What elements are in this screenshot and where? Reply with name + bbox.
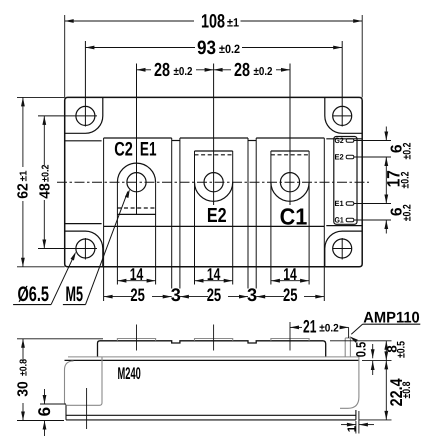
arrow 22.4 top — [384, 360, 388, 369]
arrow 22.4 bottom — [384, 411, 388, 420]
svg-text:±0.2: ±0.2 — [254, 66, 273, 78]
arrow 48 top — [42, 116, 46, 125]
dim line 0.5 lower — [372, 361, 374, 375]
svg-text:±1: ±1 — [227, 15, 239, 29]
arrow 6 lower — [43, 421, 47, 430]
dim line 30 top part — [22, 339, 24, 362]
arrow 21 right — [340, 326, 349, 330]
arrow 0.5 lower — [371, 361, 375, 370]
black seam line — [65, 359, 359, 361]
dim line 6 upper — [44, 389, 46, 404]
arrow 30 top — [21, 339, 25, 348]
extension line pin E2 — [354, 156, 391, 158]
dim line 6 lower — [44, 421, 46, 437]
side view centreline t2 — [213, 325, 215, 351]
case right foot — [340, 357, 359, 408]
chain dim line 25c-r — [304, 296, 324, 298]
arrow 8 bottom — [384, 351, 388, 360]
dim line 1 left — [341, 424, 356, 426]
side view centreline t3 — [289, 322, 291, 351]
terminal E2 centreline — [213, 64, 215, 206]
mounting pad bottom-right — [325, 231, 362, 267]
terminal C1 right side + ext — [308, 151, 310, 285]
svg-text:E2: E2 — [335, 153, 344, 162]
extension line seam right — [362, 359, 392, 361]
mounting hole top-right — [333, 106, 352, 125]
side view hole centreline — [86, 388, 88, 429]
arrow 62 top — [21, 97, 25, 106]
dim line 1 right — [359, 424, 374, 426]
terminal E2 fold dashed line — [195, 154, 233, 156]
svg-text:±0.5: ±0.5 — [396, 341, 408, 358]
terminal C1 screw hole — [280, 173, 299, 192]
svg-text:E1: E1 — [140, 138, 157, 160]
AMP110 connector pin — [345, 338, 350, 357]
extension line case edge — [358, 411, 360, 434]
arrow 93 right — [333, 46, 342, 50]
chain dim line 25b-l — [180, 296, 208, 298]
terminal C2/E1 left side + ext — [116, 182, 118, 284]
arrow 6 upper — [43, 395, 47, 404]
dim line 62 top part — [22, 97, 24, 167]
arrow 6a top — [384, 132, 388, 141]
svg-text:±0.2: ±0.2 — [402, 204, 414, 221]
dim line 14 — [117, 280, 155, 282]
dim line 93 right part — [242, 47, 342, 49]
svg-text:25: 25 — [130, 285, 145, 305]
arrow 17 top — [384, 157, 388, 166]
baseplate bottom line — [66, 419, 356, 421]
arrow 108 right — [353, 19, 362, 23]
arrow 28a left — [137, 68, 146, 72]
raised-area step line right-bottom — [326, 225, 362, 227]
arrow 1 left — [347, 423, 356, 427]
terminal C1 arch — [271, 182, 309, 201]
terminal C2/E1 right side + ext — [155, 182, 157, 284]
slot wall 3 — [179, 138, 181, 289]
svg-text:28: 28 — [234, 60, 250, 81]
extension line side bottom — [17, 420, 64, 422]
svg-text:M240: M240 — [118, 364, 141, 383]
dim line 28b left — [214, 69, 231, 71]
svg-text:±0.2: ±0.2 — [400, 172, 412, 189]
extension line baseplate bottom — [359, 419, 392, 421]
slot wall 2 — [171, 138, 173, 289]
arrow 0.5 upper — [371, 349, 375, 358]
slot bottom edge — [104, 225, 325, 227]
svg-text:G1: G1 — [335, 216, 345, 225]
chain dim line 25c-l — [256, 296, 284, 298]
svg-text:C2: C2 — [114, 138, 133, 160]
svg-text:0.5: 0.5 — [354, 341, 369, 357]
terminal E2 arch — [195, 182, 233, 201]
arrow 21 left — [290, 326, 299, 330]
terminal C1 left side + ext — [270, 151, 272, 285]
extension line top edge — [17, 96, 65, 98]
mounting hole top-left — [76, 106, 95, 125]
leader arrow AMP110 — [349, 336, 358, 343]
mounting pad bottom-left — [65, 231, 103, 267]
terminal C2/E1 plate bottom — [117, 213, 155, 215]
arrow 30 bottom — [21, 412, 25, 421]
svg-text:93: 93 — [197, 38, 216, 59]
slot wall 4 — [247, 138, 249, 289]
svg-text:±0.2: ±0.2 — [219, 42, 240, 56]
leader line M5 — [86, 192, 128, 305]
extension line foot bottom — [40, 403, 66, 405]
baseplate left edge — [65, 405, 67, 420]
groove notch top 2 — [248, 140, 256, 142]
extension line baseplate edge — [355, 421, 357, 434]
underline AMP110 — [363, 323, 421, 325]
arrow 28b left — [214, 68, 223, 72]
lid terminal bump — [271, 339, 309, 341]
svg-text:28: 28 — [154, 60, 170, 81]
dim line 28b right — [276, 69, 290, 71]
arrow 28b right — [281, 68, 290, 72]
svg-text:±0.2: ±0.2 — [402, 143, 414, 160]
dim line 6b arrow body — [385, 220, 387, 234]
svg-text:25: 25 — [283, 285, 298, 305]
lid terminal bump — [117, 339, 155, 341]
arrow 93 left — [85, 46, 94, 50]
svg-text:G2: G2 — [335, 136, 344, 145]
horizontal centreline — [57, 181, 369, 183]
underline dia6.5 — [13, 304, 51, 306]
arrow 1 right — [359, 423, 368, 427]
dim line 6a arrow body — [385, 127, 387, 141]
leader arrow M5 — [125, 189, 130, 198]
dim line 14 — [195, 280, 233, 282]
svg-text:14: 14 — [283, 265, 297, 284]
leader line AMP110 — [351, 324, 362, 334]
terminal E2 plate top — [195, 150, 233, 152]
svg-text:1: 1 — [346, 425, 359, 432]
slot top edge 2 — [180, 137, 248, 139]
svg-text:3: 3 — [247, 285, 257, 305]
control terminal block — [334, 137, 357, 225]
leader line dia6.5 — [51, 256, 74, 305]
dim line 93 left part — [85, 47, 195, 49]
dim line 48 top part — [43, 116, 45, 165]
svg-text:±0.8: ±0.8 — [401, 382, 413, 399]
arrow 62 bottom — [21, 258, 25, 267]
svg-text:Ø6.5: Ø6.5 — [18, 283, 50, 306]
terminal E2 left side + ext — [194, 151, 196, 285]
extension line side top — [17, 338, 103, 340]
terminal E2 right side + ext — [232, 151, 234, 285]
svg-text:±0.2: ±0.2 — [319, 322, 339, 334]
dim line 14 — [271, 280, 309, 282]
side view centreline t1 — [136, 325, 138, 351]
slot top edge 1 — [104, 137, 172, 139]
svg-text:14: 14 — [207, 265, 221, 284]
dim line 28a left — [137, 69, 152, 71]
control pin E1 — [346, 202, 354, 205]
case left foot — [65, 357, 103, 405]
dim line 108 left part — [65, 20, 194, 22]
slot top edge 3 — [256, 137, 324, 139]
svg-text:108: 108 — [201, 12, 225, 33]
terminal C1 fold dashed line — [271, 154, 309, 156]
mounting hole bottom-left — [76, 239, 95, 258]
dim line 8 — [385, 341, 387, 361]
leader arrow dia6.5 — [71, 252, 77, 261]
underline M5 — [63, 304, 86, 306]
svg-text:3: 3 — [171, 285, 181, 305]
dim line 21 right — [341, 326, 349, 328]
dim line 21 left — [290, 326, 302, 328]
dim line 62 bottom part — [22, 201, 24, 267]
arrow 28a right — [205, 68, 214, 72]
arrow 48 bottom — [42, 240, 46, 249]
dim line 22.4 — [385, 360, 387, 420]
dim line 28a right — [196, 69, 214, 71]
mounting pad top-right — [325, 97, 362, 133]
extension line pin G1 — [354, 219, 391, 221]
arrow 17 bottom — [384, 195, 388, 204]
svg-text:±0.8: ±0.8 — [19, 359, 30, 376]
chain dim line 25a-l — [104, 296, 132, 298]
baseplate top line — [66, 414, 356, 416]
svg-text:21: 21 — [303, 316, 316, 336]
side view lid outline — [98, 341, 326, 357]
extension line lid top — [330, 340, 392, 342]
raised-area step line left-bottom — [65, 223, 102, 225]
raised-area step line right-top — [326, 138, 362, 140]
gray seam line — [68, 356, 359, 358]
dim line 0.5 upper — [372, 344, 374, 358]
svg-text:62: 62 — [15, 183, 31, 199]
extension line left edge — [64, 15, 66, 97]
dim line 30 bottom part — [22, 403, 24, 421]
slot wall 1 — [103, 138, 105, 301]
terminal C2/E1 screw hole M5 — [127, 173, 146, 192]
extension line 21 right — [348, 327, 350, 338]
terminal C2/E1 arch — [117, 163, 155, 182]
baseplate right edge — [355, 410, 357, 420]
terminal C2/E1 centreline — [136, 64, 138, 215]
svg-text:±1: ±1 — [19, 170, 30, 181]
svg-text:C1: C1 — [280, 204, 308, 230]
arrow 108 left — [65, 19, 74, 23]
chain dim line 25a-r — [152, 296, 172, 298]
arrow 8 top — [384, 341, 388, 350]
svg-text:M5: M5 — [66, 283, 84, 306]
raised-area step line left-top — [65, 140, 102, 142]
svg-text:14: 14 — [130, 265, 144, 284]
terminal C1 centreline — [289, 64, 291, 206]
svg-text:±0.2: ±0.2 — [41, 164, 52, 182]
terminal C1 plate top — [271, 150, 309, 152]
svg-text:48: 48 — [38, 183, 54, 199]
svg-text:30: 30 — [16, 381, 32, 397]
terminal E2 screw hole — [204, 173, 223, 192]
svg-text:6: 6 — [35, 407, 54, 416]
chain dim line 25b-r — [228, 296, 248, 298]
control pin E2 — [346, 155, 354, 158]
dim line 108 right part — [241, 20, 363, 22]
slot wall 6 — [323, 138, 325, 301]
slot wall 5 — [255, 138, 257, 289]
extension line pin G2 — [354, 140, 391, 142]
groove notch top 1 — [172, 140, 180, 142]
svg-text:±0.2: ±0.2 — [174, 66, 193, 78]
extension line bottom edge — [17, 266, 65, 268]
control pin G1 — [346, 218, 354, 221]
dim line 48 bottom part — [43, 200, 45, 249]
extension line right edge — [361, 15, 363, 97]
extension line pin E1 — [354, 203, 391, 205]
terminal C2/E1 fold dashed line — [117, 207, 155, 209]
control pin G2 — [346, 139, 354, 142]
dim line 17 — [385, 157, 387, 204]
svg-text:E2: E2 — [207, 205, 227, 227]
lid terminal bump — [195, 339, 233, 341]
mounting pad top-left — [65, 97, 103, 133]
svg-text:25: 25 — [207, 285, 222, 305]
mounting hole bottom-right — [333, 239, 352, 258]
svg-text:E1: E1 — [335, 199, 345, 208]
module body outline (top view) — [65, 97, 363, 266]
arrow 6b bottom — [384, 220, 388, 229]
